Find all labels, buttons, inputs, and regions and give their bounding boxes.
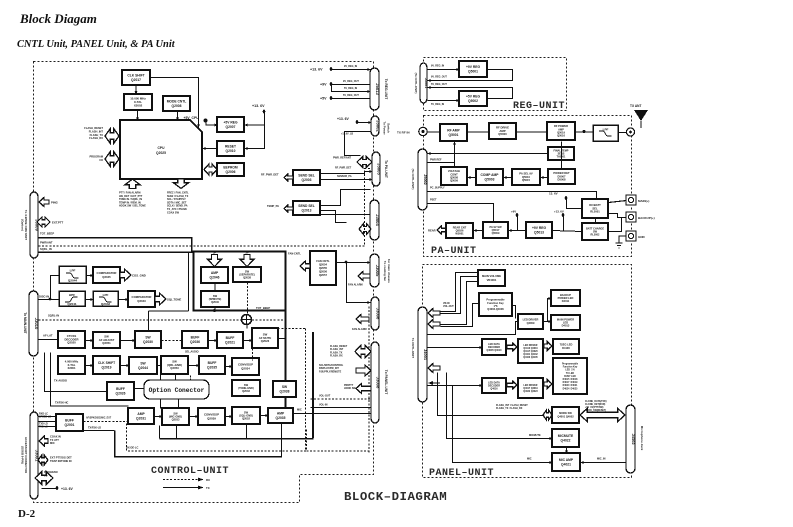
reset IC RESET Q2010: [217, 141, 244, 156]
svg-text:Q4009: Q4009: [527, 321, 535, 325]
wire RESET to CPU: [203, 148, 218, 150]
wire panel v2: [447, 373, 553, 439]
wire DISC-IN: [39, 299, 60, 301]
svg-text:MIC: MIC: [50, 441, 55, 445]
node +13.6V switch: [355, 120, 359, 124]
wire HPF to LPF: [86, 299, 94, 301]
PANEL-UNIT dashed border: [423, 265, 632, 478]
wire X-TAL to CPU: [137, 111, 139, 121]
wire audio trunk: [285, 311, 287, 408]
label COAX IN TX ATT MIC: [50, 435, 61, 446]
svg-text:Q2038: Q2038: [280, 389, 290, 393]
wire LPF to COMPARATOR: [87, 275, 94, 277]
svg-text:Q2006: Q2006: [226, 170, 236, 174]
svg-text:+13. 6V: +13. 6V: [337, 117, 350, 121]
buffer BUFF Q2026: [107, 382, 134, 400]
arrow COS_GND out: [120, 269, 131, 281]
wire +13.6V J3001: [42, 488, 58, 490]
decoder CTCSS DECODER Q2020: [58, 331, 85, 348]
svg-text:D4100: D4100: [562, 346, 570, 350]
svg-text:MICMUTE: MICMUTE: [529, 434, 541, 437]
wire SEND SEL2 to J3004: [321, 214, 371, 216]
node +9V: [329, 82, 333, 86]
indicator Programmable Function Key LED: [553, 358, 587, 394]
wire +5V_CPU to +5V REG: [206, 121, 218, 125]
indicator BACKUP POWER LED D4011: [551, 290, 580, 306]
wire PWR/ANT dashed: [39, 169, 373, 247]
switch SW MIC-GND Q2033: [162, 408, 189, 425]
svg-text:Q2021: Q2021: [225, 340, 235, 344]
filter LPF Q2042: [93, 291, 118, 306]
amplifier MIC AMP Q4021: [552, 453, 580, 471]
oscillator CLK SHIFT Q2019: [93, 356, 120, 374]
svg-text:Q2032: Q2032: [242, 389, 250, 393]
wire sum out: [246, 325, 248, 328]
arrow FAN ALARM J3005: [358, 272, 370, 281]
wire SQLGND to AMP: [261, 415, 269, 417]
svg-text:5V_REG_OUT: 5V_REG_OUT: [343, 94, 359, 97]
svg-text:SP: SP: [213, 252, 217, 255]
svg-text:FLASH_INT: FLASH_INT: [89, 129, 104, 133]
wire 9V_REG_IN: [332, 69, 371, 71]
svg-text:13. 6V: 13. 6V: [549, 192, 558, 196]
wire bus A drop2: [176, 426, 178, 439]
wire dashed ctl link: [368, 307, 370, 453]
driver LED DRIVER Q4110: [518, 339, 543, 363]
wire BUFF to AF MUTE: [244, 340, 253, 342]
svg-text:Q4021: Q4021: [561, 462, 571, 466]
wire RF_PWR_DET to J3003: [321, 172, 373, 174]
svg-text:Switch: Switch: [387, 123, 391, 133]
arrow PING: [39, 198, 49, 207]
node rf out junction: [583, 130, 586, 133]
label PROGRAM I/O: [89, 155, 103, 162]
svg-text:(To CNTL-UNIT): (To CNTL-UNIT): [414, 73, 418, 94]
wire accessory trunk: [44, 353, 46, 392]
svg-text:To PA-UNIT: To PA-UNIT: [384, 160, 388, 178]
svg-text:Q5000: Q5000: [498, 132, 507, 136]
arrow J3004 port: [359, 224, 371, 235]
wire TXD2 into BUFF: [39, 426, 57, 428]
svg-text:MIC_IN: MIC_IN: [597, 458, 606, 461]
wire panel v1: [438, 373, 544, 416]
svg-text:Microphone Jack: Microphone Jack: [640, 426, 644, 451]
legend solid line TX: [163, 487, 201, 489]
wire vol 3: [441, 282, 479, 325]
svg-text:SP: SP: [245, 252, 249, 255]
svg-text:Q2017: Q2017: [131, 78, 141, 82]
wire bus A: [160, 438, 314, 440]
svg-text:+13.6V_LB: +13.6V_LB: [341, 133, 353, 136]
wire AF ADJUST to SW: [121, 340, 136, 342]
svg-text:TX/FSK-HC: TX/FSK-HC: [55, 402, 69, 405]
switch SW AF ADJUST Q2051: [93, 332, 120, 348]
switch PA 9V SW Q5017: [483, 222, 508, 238]
connector J3009: [30, 192, 40, 258]
svg-text:COS_GND: COS_GND: [132, 274, 146, 278]
arrow EXT.PTT: [37, 217, 50, 227]
wire mic_in: [581, 462, 627, 464]
wire 9V_REG_IN reg: [428, 69, 460, 71]
svg-text:Q5013: Q5013: [534, 230, 544, 234]
svg-text:Q2036: Q2036: [190, 340, 200, 344]
amplifier AMP Q2031: [128, 408, 154, 424]
svg-text:Q2034: Q2034: [241, 367, 250, 371]
svg-text:Q2033: Q2033: [172, 418, 180, 422]
svg-text:I/O: I/O: [100, 158, 103, 162]
svg-text:Q4017 Q4019: Q4017 Q4019: [523, 387, 538, 390]
arrow mode sw in: [543, 410, 552, 420]
indicator 7SEG LED D4100: [553, 339, 579, 354]
svg-text:MIC: MIC: [527, 458, 532, 461]
wire PASEL to COMP: [504, 177, 513, 179]
wire speaker block enclosure: [194, 252, 286, 311]
label CLONE signals: [585, 400, 607, 412]
svg-text:LPF: LPF: [103, 293, 109, 297]
svg-text:D4015 D4018: D4015 D4018: [563, 378, 579, 381]
connector J4001: [418, 307, 428, 402]
label PROGRAM IO: [44, 470, 58, 477]
svg-text:Programmable: Programmable: [562, 364, 579, 366]
wire bus A drop4: [281, 424, 283, 457]
wire opt bot2: [178, 400, 180, 409]
switch SW Q2044: [129, 357, 157, 374]
node +5V_CPU: [204, 119, 208, 123]
svg-text:RX: RX: [206, 478, 210, 482]
wire CHARGE to 9VREG: [553, 231, 583, 232]
svg-text:Q4022 Q4023: Q4022 Q4023: [523, 390, 538, 393]
wire SEND SEL2 loop2: [321, 211, 347, 223]
wire MODE CNTL to CPU: [177, 112, 179, 121]
svg-text:PSET: PSET: [430, 199, 437, 202]
svg-text:LED DRIVER: LED DRIVER: [523, 318, 539, 322]
wire PWR REF: [428, 163, 455, 168]
wire +13.6V stub pa: [563, 216, 565, 232]
wire SQRL_IN: [39, 251, 195, 253]
driver REAR CNT Q5026: [446, 223, 473, 238]
relay DC/BATT SEL RL5001: [582, 199, 608, 218]
wire +13.6V to RESET: [245, 125, 265, 149]
arrow led data to driver: [507, 343, 517, 351]
label RXD-LC TXD-LD: [39, 413, 51, 419]
connector J3004: [370, 200, 380, 240]
svg-text:Q4005 Q4010: Q4005 Q4010: [486, 349, 502, 352]
label SCL SDTA bus: [319, 364, 344, 373]
wire bus B: [115, 431, 283, 457]
switch SW SPMUTE Q2040: [201, 291, 229, 307]
label PRI PTT HOOK: [344, 384, 356, 390]
svg-text:TX/FSK-LD: TX/FSK-LD: [88, 426, 101, 429]
svg-text:D4011: D4011: [562, 299, 570, 303]
sensor FINAL TEMP SENS TH5001: [548, 147, 574, 160]
amplifier RF POWER AMP Q5019: [547, 122, 575, 140]
wire driver to main power: [548, 321, 552, 323]
svg-text:VOL-OUT: VOL-OUT: [319, 395, 331, 398]
wire DRIVE to POWER: [517, 131, 548, 133]
wire COMP to VC: [468, 177, 477, 179]
svg-text:PWR/ANT: PWR/ANT: [40, 241, 53, 245]
driver LED DRIVER Q4009: [518, 314, 543, 329]
svg-text:+5V_CPU: +5V_CPU: [184, 116, 200, 120]
svg-text:TX: TX: [206, 486, 210, 490]
converter CONV/DSP Q2039: [198, 408, 225, 425]
regulator +5V REG Q5002: [459, 91, 487, 106]
svg-text:D4013: D4013: [562, 324, 570, 328]
wire CLK SHIFT to SW: [121, 365, 130, 367]
arrow SP down2: [240, 255, 254, 267]
svg-text:RF_PWR_DET: RF_PWR_DET: [335, 167, 352, 170]
svg-text:Q2057: Q2057: [319, 273, 328, 277]
wire +9V stub: [332, 85, 349, 92]
svg-text:(DSUB 9-PIN): (DSUB 9-PIN): [21, 446, 25, 464]
connector J3010: [29, 291, 39, 356]
svg-text:Q2044: Q2044: [68, 279, 78, 283]
wire CLK SHIFT to X-TAL: [135, 85, 137, 94]
svg-text:TEMP_PA: TEMP_PA: [267, 204, 279, 208]
wire beep dashed right: [252, 319, 286, 321]
switch SW Q2038: [273, 381, 296, 397]
amplifier AMP Q2035: [268, 408, 293, 423]
svg-text:Q2025: Q2025: [156, 151, 166, 155]
svg-text:AF-LAT: AF-LAT: [43, 334, 53, 338]
svg-text:+9V: +9V: [320, 83, 327, 87]
svg-text:To MAIN-UNIT: To MAIN-UNIT: [23, 312, 27, 333]
wire 5V_REG_OUT reg: [428, 88, 513, 99]
wire TOT_BEEP: [39, 238, 192, 253]
svg-text:D4017 D4019: D4017 D4019: [563, 381, 579, 384]
svg-text:CONTROL–UNIT: CONTROL–UNIT: [151, 466, 229, 477]
switch SW SQL-GND Q2052: [232, 407, 260, 424]
svg-text:+13. 6V: +13. 6V: [310, 68, 323, 72]
filter LPF Q2044: [59, 266, 86, 283]
arrow SP down1: [208, 255, 222, 267]
svg-text:PWR_REF/ANT: PWR_REF/ANT: [333, 157, 352, 160]
wire vol 2: [441, 273, 479, 312]
arrow FLASH J3008: [355, 345, 371, 358]
svg-text:SEL.AUDIO: SEL.AUDIO: [185, 351, 199, 354]
svg-text:+13. 6V: +13. 6V: [61, 487, 74, 491]
svg-text:AF/SPK/DISC/MIC_EXT: AF/SPK/DISC/MIC_EXT: [86, 417, 112, 420]
wire QRL to BUFF: [189, 365, 200, 367]
svg-text:Q2046: Q2046: [210, 275, 220, 279]
switch MODE SW Q4001: [552, 407, 579, 423]
svg-text:Q2055: Q2055: [319, 266, 328, 270]
svg-text:5V_REG_OUT: 5V_REG_OUT: [431, 83, 447, 86]
svg-text:Q4110 Q4016: Q4110 Q4016: [523, 347, 538, 350]
wire 5V_REG_OUT cntl: [332, 98, 371, 100]
label EXT PTT SIG DET: [50, 456, 72, 463]
svg-text:FAN ALARM: FAN ALARM: [352, 328, 367, 331]
svg-text:D5008: D5008: [558, 178, 566, 182]
wire TXD into BUFF: [39, 421, 57, 423]
connector J3008: [371, 342, 381, 423]
terminal BACKUP(+): [626, 212, 636, 222]
label FLASH panel: [496, 404, 528, 410]
mode control MODE CNTL Q2008: [163, 96, 190, 111]
switch SW Q2030: [135, 331, 161, 348]
connector TX RF IN jack: [419, 127, 427, 135]
svg-text:for main chassis: for main chassis: [387, 259, 391, 283]
keypad Programmable Function Key Q4002-Q4006: [479, 293, 512, 316]
svg-text:J4302: J4302: [631, 433, 636, 445]
wire 9V_REG_OUT: [332, 84, 371, 86]
svg-text:PC_SUPPLY: PC_SUPPLY: [430, 187, 445, 190]
wire SEPARATE down: [247, 283, 249, 316]
svg-text:Q4001 Q4002: Q4001 Q4002: [557, 415, 574, 419]
svg-text:Q5009: Q5009: [492, 231, 500, 235]
svg-text:PANEL–UNIT: PANEL–UNIT: [429, 468, 494, 479]
wire bus A drop5: [312, 413, 314, 438]
svg-text:W5001: W5001: [455, 232, 464, 236]
wire 9V_REG_OUT reg: [428, 70, 513, 81]
svg-text:Q2026: Q2026: [116, 391, 126, 395]
svg-text:Q2051: Q2051: [102, 341, 111, 345]
svg-text:Q2030: Q2030: [143, 340, 153, 344]
detector POWER DET D5007: [548, 169, 575, 184]
svg-text:J3006: J3006: [376, 308, 381, 320]
svg-text:To REG-UNIT: To REG-UNIT: [384, 79, 388, 100]
terminal GND: [626, 231, 636, 241]
svg-text:+13. 6V: +13. 6V: [252, 104, 265, 108]
arrow TEMP_PA: [284, 205, 293, 212]
driver LED DRIVER Q4017: [518, 378, 543, 398]
wire PC_SUPPLY: [428, 192, 597, 200]
arrow REAR: [437, 226, 446, 234]
svg-text:HOOK_SW(RESET): HOOK_SW(RESET): [585, 410, 606, 412]
svg-text:(Option): (Option): [21, 219, 25, 231]
switch SEND SEL Q2003: [293, 170, 320, 185]
wire TX/FSK-LD: [84, 430, 115, 432]
svg-text:J3003: J3003: [377, 163, 382, 175]
svg-text:Q2042: Q2042: [101, 302, 111, 306]
arrow CPU-EEPROM bus: [204, 164, 217, 175]
Option Conector: [144, 380, 209, 399]
legend dashed line RX: [163, 479, 201, 481]
wire CONV to SQLGND: [226, 416, 233, 418]
indicator MAIN POWER LED D4013: [551, 315, 580, 330]
svg-text:FLASH_RX: FLASH_RX: [330, 355, 343, 358]
svg-text:To PANEL-UNIT: To PANEL-UNIT: [384, 370, 388, 394]
svg-text:FLASH_TX FLASH_RX: FLASH_TX FLASH_RX: [496, 407, 523, 410]
svg-text:EXT.PTT: EXT.PTT: [52, 221, 63, 225]
connector J3003: [372, 152, 382, 186]
wire j4001 to led data: [428, 347, 483, 349]
converter CONV/DSP Q2034: [232, 358, 259, 375]
switch PA SEL 9V Q5010: [512, 169, 540, 185]
connector J5002: [418, 149, 427, 210]
svg-text:To cooling fan: To cooling fan: [383, 261, 387, 281]
svg-text:LED DRIVER: LED DRIVER: [524, 345, 538, 347]
svg-text:Block Diagam: Block Diagam: [19, 11, 97, 26]
svg-text:Q4002-Q4006: Q4002-Q4006: [487, 307, 504, 311]
svg-text:COAX SW: COAX SW: [167, 211, 180, 214]
svg-text:MODE SW: MODE SW: [559, 411, 572, 415]
svg-text:SQL.TONE: SQL.TONE: [167, 298, 181, 302]
wire AF MUTE out: [279, 338, 287, 340]
svg-text:9V_REG_OUT: 9V_REG_OUT: [431, 76, 447, 79]
switch SW TONE-GND Q2032: [232, 380, 260, 396]
connector J5013: [370, 68, 380, 110]
wire trunk2: [312, 332, 314, 413]
wire dashed bus right: [307, 450, 370, 452]
wire rfin to RF AMP: [428, 131, 441, 133]
svg-text:I/O: I/O: [44, 473, 47, 477]
switch SW AF MUTE Q2023: [252, 328, 278, 348]
wire AMP to SPMUTE: [214, 284, 216, 292]
svg-text:TOT_BEEP: TOT_BEEP: [40, 232, 54, 236]
svg-text:Q2031: Q2031: [136, 416, 146, 420]
svg-text:J4001: J4001: [423, 349, 428, 361]
svg-text:To Power: To Power: [383, 121, 387, 135]
wire PWRDET up: [561, 142, 563, 170]
amplifier RF AMP Q5001: [440, 124, 467, 141]
svg-text:Q2041: Q2041: [67, 302, 77, 306]
svg-text:Option Conector: Option Conector: [149, 387, 205, 394]
svg-text:Q5003: Q5003: [485, 177, 495, 181]
arrow led data2 to driver: [507, 381, 517, 389]
node 13.6V pa: [564, 196, 568, 200]
decoder LED DATA DECODER Q4010: [482, 339, 506, 355]
wire dashed bus bottom: [127, 424, 307, 452]
svg-text:9V_REG_OUT: 9V_REG_OUT: [343, 80, 359, 83]
memory EEPROM Q2006: [217, 163, 244, 176]
svg-text:SQRL_IN: SQRL_IN: [40, 247, 52, 251]
wire MICGND to CONV: [190, 416, 199, 418]
wire BUFF2026 out: [135, 388, 145, 390]
label CPU output signals: [167, 192, 189, 215]
wire opt bot1: [160, 400, 162, 409]
svg-text:J3010: J3010: [34, 318, 39, 330]
PA-UNIT dashed border: [424, 116, 632, 257]
controller FAN CNTL Q2054-Q2057: [310, 251, 336, 285]
svg-text:J3004: J3004: [375, 214, 380, 226]
svg-text:BACKUP(+): BACKUP(+): [638, 216, 655, 220]
svg-text:PROGRAM: PROGRAM: [89, 155, 103, 159]
regulator +9V REG Q5001: [459, 61, 487, 77]
svg-text:Q5001: Q5001: [449, 133, 459, 137]
svg-text:+9V: +9V: [511, 210, 516, 214]
svg-text:D4024 D4025: D4024 D4025: [563, 387, 579, 390]
label VR-IN VOL-OUT: [443, 302, 454, 308]
wire RF AMP to DRIVE: [468, 131, 490, 133]
wire 5V_REG_IN reg: [428, 100, 460, 102]
svg-text:FLASH_RX: FLASH_RX: [89, 136, 103, 140]
relay BATT CHARGE SW RL5002: [582, 223, 608, 240]
wire PA9V to REARCNT: [474, 230, 484, 232]
wire VOL-OUT dashed: [311, 398, 372, 400]
wire micmute to micamp: [566, 448, 568, 454]
wire temp sens to J5002: [428, 153, 549, 155]
svg-text:BUSY LED: BUSY LED: [564, 376, 576, 378]
svg-text:HPF: HPF: [69, 293, 75, 297]
svg-text:GND: GND: [638, 235, 646, 239]
svg-text:Q2039: Q2039: [207, 417, 216, 421]
svg-text:Q2019: Q2019: [102, 365, 112, 369]
arrow PRI J3008: [356, 384, 371, 394]
filter HPF Q2041: [59, 291, 85, 306]
wire DISC to LPF: [51, 276, 60, 300]
amplifier RF DRIVE AMP Q5000: [489, 123, 516, 139]
wire SW to QRL: [158, 365, 162, 367]
svg-text:FAN-CNTL: FAN-CNTL: [288, 252, 301, 256]
wire SPMUTE to frame: [214, 308, 216, 312]
svg-text:FAN ALARM: FAN ALARM: [348, 284, 363, 287]
connector J3002: [371, 116, 381, 136]
svg-text:Q2023: Q2023: [261, 339, 270, 343]
wire sql into SW Q2030: [148, 311, 150, 332]
regulator +5V REG Q2007: [217, 117, 244, 132]
node +13.6V J3001: [55, 486, 59, 490]
